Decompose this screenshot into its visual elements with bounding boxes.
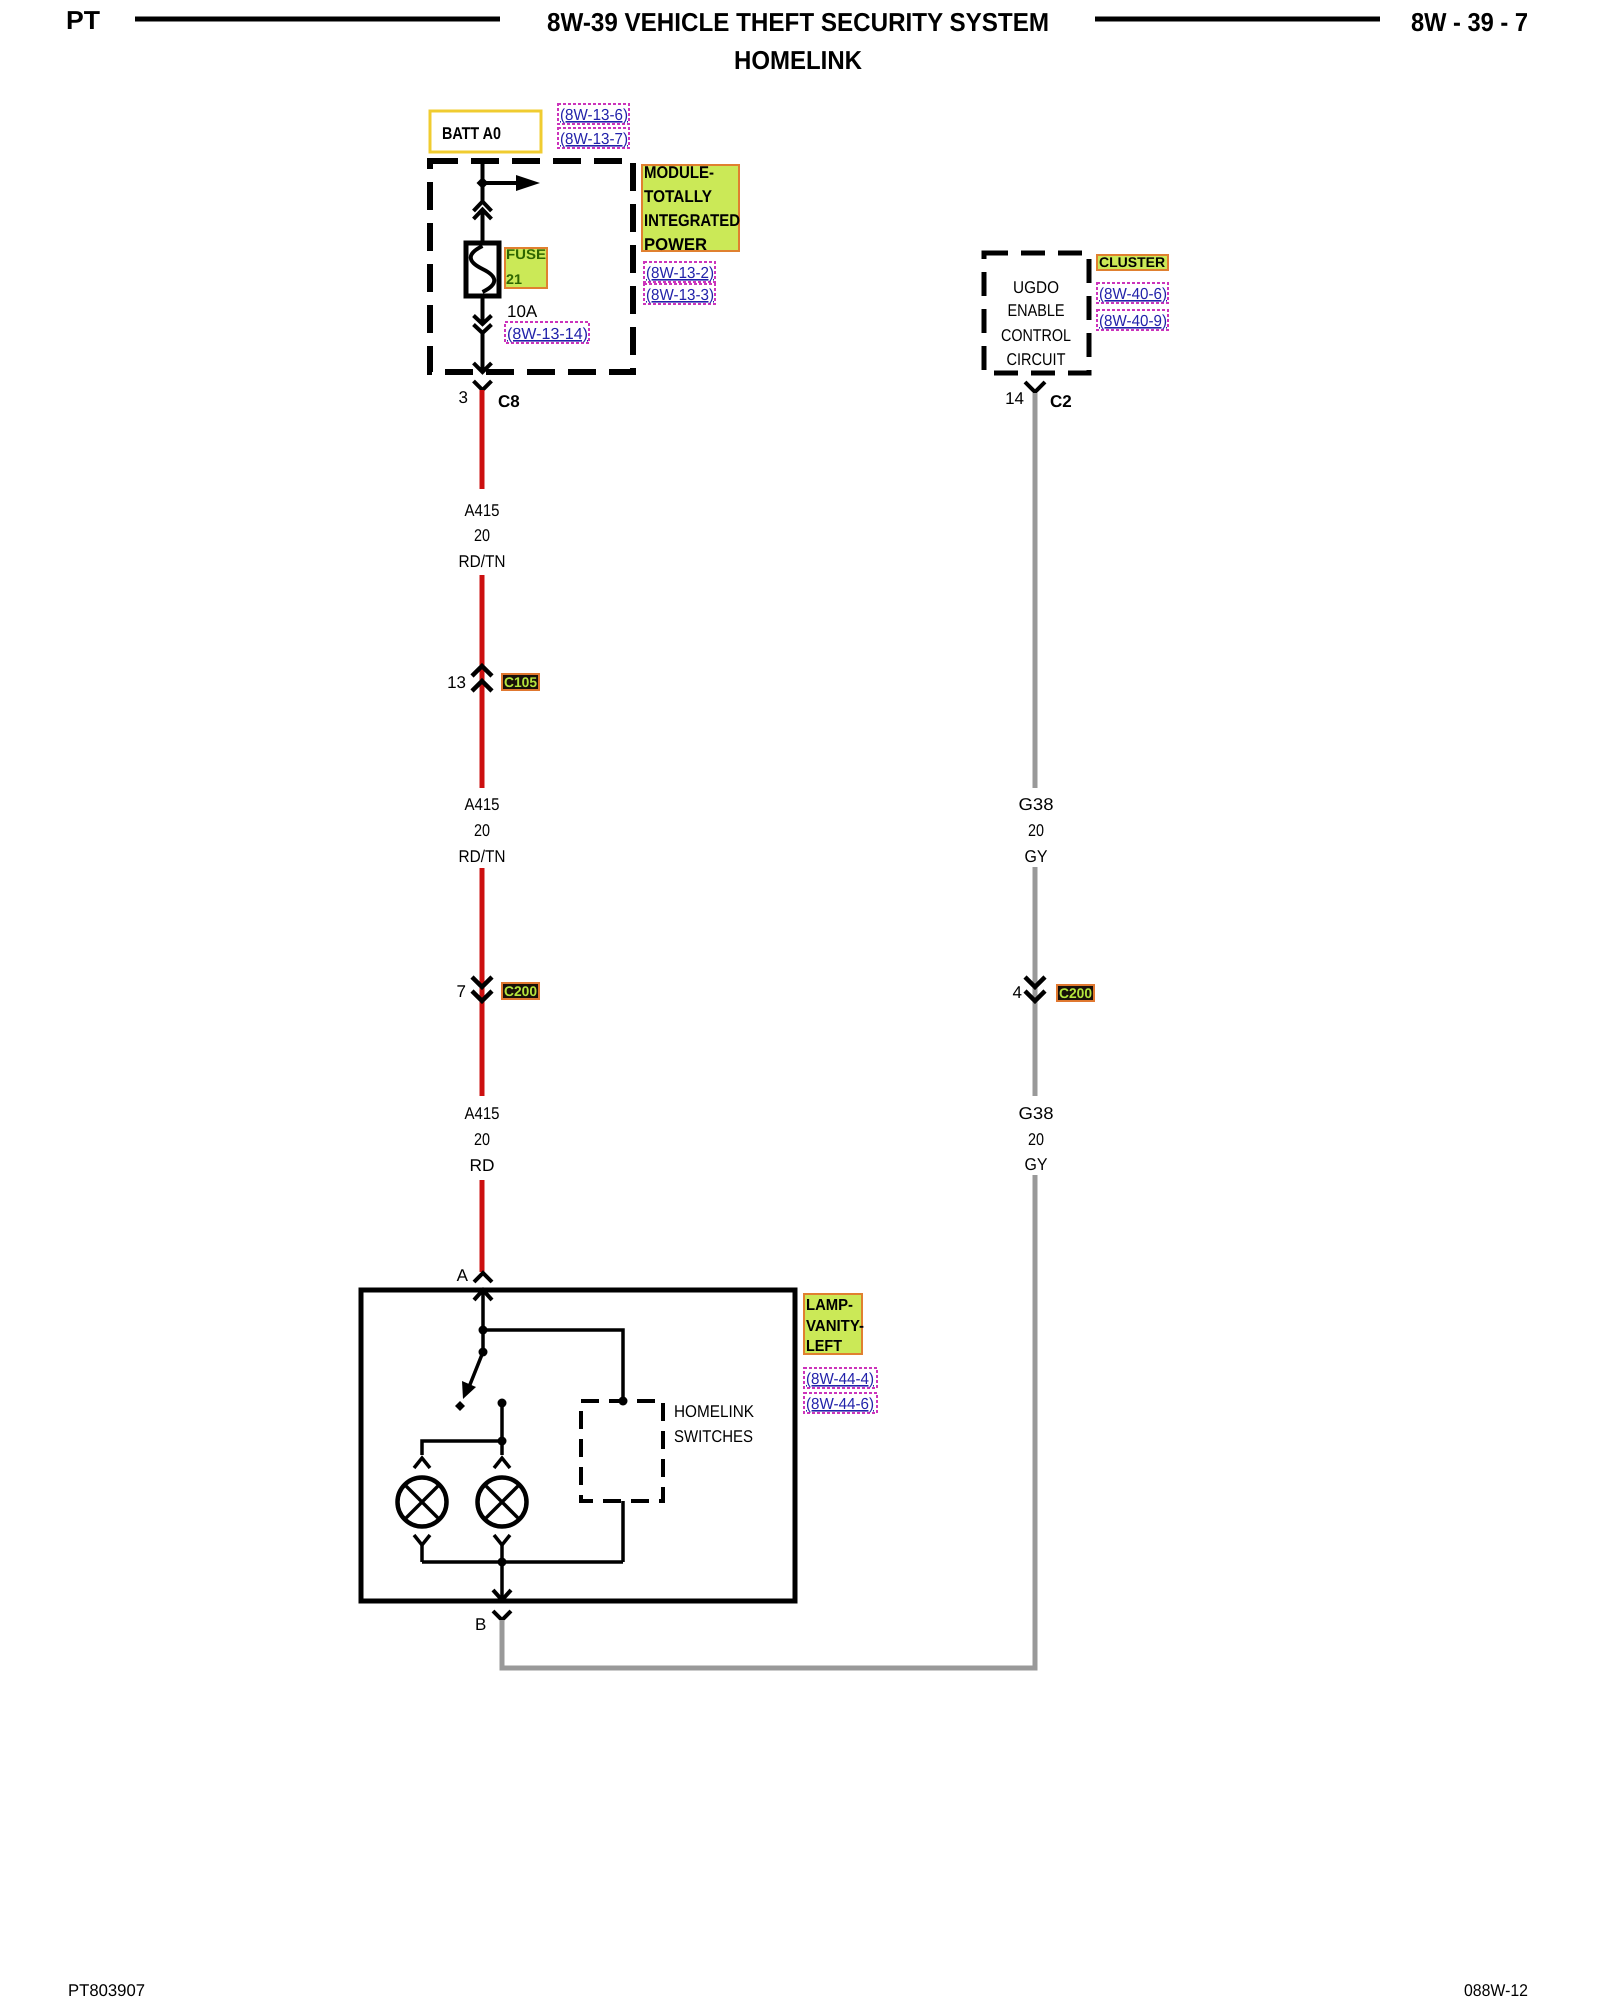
wire G38 segment 2 (gray) xyxy=(1033,867,1038,1096)
svg-text:MODULE-: MODULE- xyxy=(644,163,714,182)
battery feed box BATT A0 xyxy=(430,111,541,152)
connector C200 right symbol xyxy=(1025,977,1045,987)
switch blade xyxy=(469,1352,483,1387)
switch contact diamond xyxy=(455,1401,465,1411)
svg-text:13: 13 xyxy=(447,673,466,692)
label LAMP-VANITY-LEFT xyxy=(804,1294,862,1354)
module TIPM dashed box xyxy=(430,161,633,372)
junction diamond xyxy=(477,177,489,189)
svg-text:4: 4 xyxy=(1013,983,1022,1002)
junction dot lamp split xyxy=(498,1437,507,1446)
svg-text:A415: A415 xyxy=(465,1104,500,1123)
svg-text:(8W-44-4): (8W-44-4) xyxy=(806,1371,874,1388)
svg-text:8W - 39 - 7: 8W - 39 - 7 xyxy=(1411,7,1528,37)
svg-text:G38: G38 xyxy=(1019,1104,1054,1123)
svg-text:10A: 10A xyxy=(507,302,538,321)
svg-text:A: A xyxy=(457,1266,469,1285)
svg-text:INTEGRATED: INTEGRATED xyxy=(644,211,740,230)
wire lamp feed xyxy=(500,1403,504,1455)
right lamp bottom chevron xyxy=(494,1535,510,1545)
homelink switches dashed box xyxy=(581,1401,663,1501)
svg-text:GY: GY xyxy=(1025,1155,1048,1174)
switch pivot dot xyxy=(479,1348,488,1357)
svg-text:088W-12: 088W-12 xyxy=(1464,1981,1528,2000)
svg-text:CONTROL: CONTROL xyxy=(1001,326,1071,345)
svg-text:RD/TN: RD/TN xyxy=(459,847,506,866)
link 8W-13-6 xyxy=(558,104,629,124)
connector C8 symbol xyxy=(474,381,492,390)
link 8W-40-6 xyxy=(1097,283,1168,303)
svg-text:(8W-13-2): (8W-13-2) xyxy=(646,265,714,282)
svg-text:C200: C200 xyxy=(504,983,537,999)
svg-text:(8W-44-6): (8W-44-6) xyxy=(806,1396,874,1413)
svg-text:RD: RD xyxy=(470,1156,495,1175)
wire feed inside lamp box xyxy=(481,1290,485,1352)
junction dot bus xyxy=(498,1558,507,1567)
svg-text:20: 20 xyxy=(474,1130,490,1149)
junction dot at homelink box xyxy=(619,1397,628,1406)
wire from homelink switches to bus xyxy=(621,1501,625,1562)
connector C105 symbol xyxy=(472,666,492,676)
svg-text:14: 14 xyxy=(1005,389,1024,408)
svg-text:UGDO: UGDO xyxy=(1013,278,1059,297)
svg-text:GY: GY xyxy=(1025,847,1048,866)
link 8W-44-6 xyxy=(804,1393,877,1413)
svg-text:A415: A415 xyxy=(465,795,500,814)
wire G38 segment 1 (gray) xyxy=(1033,393,1038,788)
link 8W-44-4 xyxy=(804,1368,877,1388)
svg-text:20: 20 xyxy=(1028,821,1044,840)
fuse FUSE 21 xyxy=(466,243,499,296)
svg-text:TOTALLY: TOTALLY xyxy=(644,187,713,206)
wire A415 segment 1 (red) xyxy=(480,390,485,489)
svg-text:A415: A415 xyxy=(465,501,500,520)
svg-text:LAMP-: LAMP- xyxy=(806,1297,853,1314)
wire bus to pin B xyxy=(500,1562,504,1599)
svg-text:LEFT: LEFT xyxy=(806,1338,842,1355)
svg-text:B: B xyxy=(475,1615,486,1634)
svg-text:(8W-40-9): (8W-40-9) xyxy=(1099,313,1167,330)
wire below fuse xyxy=(481,296,485,322)
svg-text:8W-39 VEHICLE THEFT SECURITY S: 8W-39 VEHICLE THEFT SECURITY SYSTEM xyxy=(547,7,1049,37)
label FUSE 21 xyxy=(505,248,547,288)
svg-text:G38: G38 xyxy=(1019,795,1054,814)
connector C200 left symbol xyxy=(472,977,492,987)
header left rule xyxy=(135,17,500,22)
svg-text:PT: PT xyxy=(66,5,100,35)
svg-text:C200: C200 xyxy=(1059,985,1092,1001)
lamp feed contact dot xyxy=(498,1399,507,1408)
right lamp L2 xyxy=(478,1478,527,1527)
header right rule xyxy=(1095,17,1380,22)
svg-text:21: 21 xyxy=(506,271,522,287)
connector chevrons out of fuse xyxy=(474,316,492,325)
svg-text:PT803907: PT803907 xyxy=(68,1981,145,2000)
link 8W-40-9 xyxy=(1097,310,1168,330)
cluster dashed box xyxy=(984,253,1089,373)
link 8W-13-2 xyxy=(644,262,715,282)
lamp-vanity-left box xyxy=(361,1290,795,1601)
svg-text:20: 20 xyxy=(474,821,490,840)
wire A415 segment 4 (red) xyxy=(480,1180,485,1272)
svg-text:HOMELINK: HOMELINK xyxy=(674,1402,755,1421)
right lamp top chevron xyxy=(494,1458,510,1468)
svg-text:BATT A0: BATT A0 xyxy=(442,124,501,143)
svg-text:VANITY-: VANITY- xyxy=(806,1318,864,1335)
svg-text:HOMELINK: HOMELINK xyxy=(734,45,862,75)
label C200 right xyxy=(1057,985,1094,1001)
arrow into lamp box xyxy=(474,1290,492,1300)
svg-text:CIRCUIT: CIRCUIT xyxy=(1007,350,1066,369)
svg-text:(8W-13-14): (8W-13-14) xyxy=(507,326,588,343)
connector C2 symbol xyxy=(1025,382,1045,392)
svg-text:SWITCHES: SWITCHES xyxy=(674,1427,753,1446)
connector chevrons into fuse xyxy=(474,202,492,212)
junction dot feed/branch xyxy=(479,1326,488,1335)
wire TIPM internal feed xyxy=(481,161,485,202)
link 8W-13-3 xyxy=(644,284,715,304)
left lamp L1 xyxy=(398,1478,447,1527)
svg-text:20: 20 xyxy=(474,526,490,545)
svg-text:C8: C8 xyxy=(498,392,520,411)
ground bus inside lamp box xyxy=(422,1560,623,1564)
arrow out of lamp box xyxy=(493,1590,511,1600)
link 8W-13-14 xyxy=(505,322,589,343)
arrow out of TIPM xyxy=(474,363,492,372)
connector below lamp box pin B xyxy=(493,1611,511,1620)
svg-text:POWER: POWER xyxy=(644,235,707,254)
svg-text:C2: C2 xyxy=(1050,392,1072,411)
svg-text:20: 20 xyxy=(1028,1130,1044,1149)
svg-text:(8W-40-6): (8W-40-6) xyxy=(1099,286,1167,303)
wire A415 segment 2 (red) xyxy=(480,575,485,788)
svg-text:3: 3 xyxy=(459,388,468,407)
link 8W-13-7 xyxy=(558,128,629,148)
svg-text:FUSE: FUSE xyxy=(506,246,546,262)
ground wire from pin B xyxy=(502,1175,1035,1668)
svg-text:RD/TN: RD/TN xyxy=(459,552,506,571)
svg-text:(8W-13-3): (8W-13-3) xyxy=(646,287,714,304)
branch arrow to other circuits xyxy=(482,181,518,185)
svg-text:CLUSTER: CLUSTER xyxy=(1099,254,1165,270)
label C200 left xyxy=(502,983,539,999)
svg-text:C105: C105 xyxy=(504,674,537,690)
label CLUSTER xyxy=(1097,255,1168,270)
connector at lamp pin A xyxy=(474,1273,492,1282)
left lamp bottom chevron xyxy=(414,1535,430,1545)
wire A415 segment 3 (red) xyxy=(480,868,485,1096)
wire branch to homelink switches xyxy=(483,1330,623,1401)
label C105 xyxy=(502,674,539,690)
svg-text:7: 7 xyxy=(457,982,466,1001)
svg-text:(8W-13-6): (8W-13-6) xyxy=(560,107,628,124)
wire to left lamp xyxy=(422,1441,502,1455)
svg-text:(8W-13-7): (8W-13-7) xyxy=(560,131,628,148)
svg-text:ENABLE: ENABLE xyxy=(1008,301,1065,320)
left lamp top chevron xyxy=(414,1458,430,1468)
label MODULE-TOTALLY INTEGRATED POWER xyxy=(642,165,739,251)
